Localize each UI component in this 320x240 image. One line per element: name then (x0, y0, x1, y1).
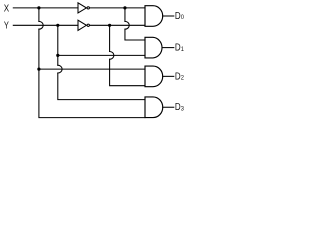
wire Y-bar vertical drop with hop over Y branch (110, 25, 145, 85)
wire X vertical drop with hop over Y (39, 8, 145, 118)
wire Y input (13, 24, 78, 26)
inverter U1 (78, 3, 86, 13)
svg-text:X: X (4, 4, 10, 15)
node Y junction (56, 24, 59, 27)
svg-text:Y: Y (4, 21, 9, 32)
wire X branch to gate D2 (39, 68, 145, 70)
node X junction (37, 6, 40, 9)
label D2 (175, 70, 185, 82)
wire hop arc at Y-bar/Y-branch crossing (110, 52, 114, 60)
AND gate U6 (D3) (145, 97, 163, 118)
node X branch junction (37, 68, 40, 71)
node Y-bar junction (108, 24, 111, 27)
AND gate U4 (D1) (145, 37, 162, 58)
wire Y-bar (90, 24, 145, 26)
wire D0 output (163, 15, 174, 17)
wire D2 output (163, 75, 174, 77)
node Y branch junction (56, 54, 59, 57)
node X-bar junction (123, 6, 126, 9)
AND gate U5 (D2) (145, 66, 163, 87)
AND gate U3 (D0) (145, 6, 163, 27)
label D3 (175, 101, 185, 113)
wire Y vertical drop with hop over X branch (58, 25, 145, 99)
label D1 (175, 42, 185, 54)
inverter U2 (78, 20, 86, 30)
wire D3 output (163, 106, 174, 108)
wire X-bar vertical drop with hop over Y-bar (125, 8, 145, 40)
wire X-bar (90, 7, 145, 9)
wire hop arc at X-bar/Y-bar crossing (125, 21, 129, 29)
wire D1 output (163, 47, 174, 49)
wire hop arc at Y/X-branch crossing (58, 65, 62, 73)
wire X input (13, 7, 78, 9)
wire Y branch to gate D1 (58, 54, 145, 56)
wire hop arc at X/Y crossing (39, 21, 43, 29)
label D0 (175, 10, 185, 22)
